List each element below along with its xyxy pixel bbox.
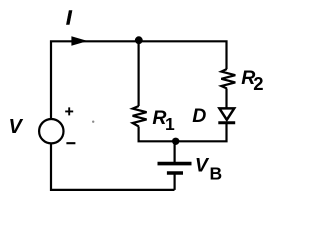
voltage source minus sign [66,142,75,144]
svg-text:D: D [192,105,206,127]
svg-text:V: V [195,155,210,177]
node B bottom junction dot [172,138,179,145]
stray speck [92,121,94,123]
wire left lower from source bottom to bottom-left corner and bottom wire [51,144,175,190]
wire R1 top lead from top node [138,41,140,106]
wire top from left corner to right corner [51,41,227,118]
svg-text:B: B [210,163,223,183]
diode D triangle [219,108,234,119]
resistor R1 [133,106,147,127]
voltage source plus sign [65,107,73,115]
wire R2 to diode lead [225,89,227,110]
resistor R2 [221,69,235,89]
svg-text:1: 1 [165,114,175,134]
battery VB top plate [158,162,192,166]
wire R1 bottom lead and middle horizontal to diode bottom corner [139,124,227,141]
current arrow I [71,36,87,45]
voltage source V circle [39,119,63,143]
svg-text:2: 2 [253,73,263,94]
wire battery top lead [174,141,176,162]
battery VB bottom plate [167,171,183,175]
node A top junction dot [135,36,143,44]
diode D cathode bar [218,121,235,124]
svg-text:V: V [9,116,24,138]
wire battery bottom lead [174,174,176,190]
